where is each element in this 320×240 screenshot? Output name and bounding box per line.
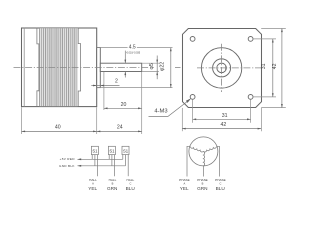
centerline side view — [14, 66, 150, 68]
svg-text:42: 42 — [272, 63, 278, 69]
phase wire middle — [202, 166, 204, 177]
front cap step contour right — [78, 28, 80, 107]
svg-text:40: 40 — [55, 124, 61, 130]
svg-text:-0.010/-0.035: -0.010/-0.035 — [126, 51, 141, 54]
svg-text:S1: S1 — [92, 149, 98, 154]
winding coil up-right — [203, 146, 216, 152]
dim 42 bottom line — [182, 128, 261, 130]
dim 42 right extension lines — [261, 28, 286, 30]
front cap step contour left — [37, 28, 39, 107]
svg-text:HALL: HALL — [109, 178, 117, 182]
motor winding circle — [189, 137, 218, 166]
svg-text:4.5: 4.5 — [129, 44, 136, 50]
svg-text:GND BLK: GND BLK — [59, 164, 75, 168]
winding coil down — [203, 151, 204, 165]
sensor1 pins — [78, 155, 129, 177]
dim 31 bottom line — [193, 118, 251, 120]
centerline dash right of phi22 — [175, 66, 181, 68]
+5V bus wire — [78, 158, 123, 160]
hall sensor box S1 #2 — [108, 146, 115, 154]
front view vertical centerline — [221, 44, 223, 92]
mounting hole bottom-left — [190, 95, 195, 100]
svg-text:HALL: HALL — [89, 178, 97, 182]
svg-text:BLU: BLU — [216, 186, 226, 191]
shaft flat chord — [224, 65, 226, 71]
dim 4.5 extension/boss-top line — [97, 47, 128, 49]
pilot boss side view — [97, 48, 101, 88]
shaft side view — [100, 63, 141, 71]
dim 42 right line — [281, 29, 283, 108]
dim 31 bottom extension lines — [192, 100, 194, 123]
svg-text:PHASE: PHASE — [179, 178, 190, 182]
dim phi22 line and arrows — [170, 48, 172, 88]
svg-text:31: 31 — [261, 63, 267, 69]
GND arrow — [77, 165, 81, 167]
GND bus wire — [78, 165, 126, 167]
winding coil up-left — [190, 146, 203, 152]
svg-text:B: B — [112, 182, 114, 186]
leader 4-M3 — [149, 100, 190, 116]
svg-text:S1: S1 — [123, 149, 129, 154]
svg-text:S1: S1 — [109, 149, 115, 154]
svg-text:42: 42 — [221, 122, 227, 128]
sensor2 pins — [108, 155, 110, 160]
hall sensor box S1 #1 — [91, 146, 98, 154]
hall sensor box S1 #3 — [122, 146, 129, 154]
dim 31 right extension lines — [253, 38, 276, 40]
svg-text:24: 24 — [117, 124, 123, 130]
svg-text:PHASE: PHASE — [197, 178, 208, 182]
svg-text:+5V RED: +5V RED — [60, 157, 76, 161]
dim phi5 line and arrows — [156, 56, 158, 80]
mounting hole bottom-right — [248, 95, 253, 100]
svg-text:PHASE: PHASE — [215, 178, 226, 182]
sensor3 pins — [122, 155, 124, 160]
dim 4.5 lower arrow — [124, 72, 126, 78]
dim phi5 extension lines — [142, 62, 159, 64]
svg-text:B: B — [202, 182, 204, 186]
shaft circle — [217, 63, 227, 73]
lamination stack ribs — [39, 28, 78, 106]
dim 42 bottom extension lines — [181, 108, 183, 131]
svg-text:YEL: YEL — [88, 186, 97, 191]
svg-text:2: 2 — [115, 78, 118, 84]
mounting hole top-left — [190, 37, 195, 42]
dim 40 extension lines — [22, 72, 142, 134]
dim 24 line — [97, 130, 142, 132]
svg-text:φ5: φ5 — [149, 63, 155, 69]
phase wire left — [187, 146, 190, 176]
dim 2 line — [91, 85, 119, 87]
rear cover inner line — [23, 28, 25, 107]
svg-text:4-M3: 4-M3 — [154, 108, 167, 114]
mounting hole top-right — [248, 37, 253, 42]
dim 4.5 upper arrow — [124, 51, 126, 64]
phase wire right — [217, 146, 219, 176]
svg-text:A: A — [92, 182, 94, 186]
svg-text:BLU: BLU — [126, 186, 136, 191]
svg-text:C: C — [219, 182, 221, 186]
svg-text:C: C — [129, 182, 131, 186]
motor body side view outline — [22, 28, 97, 107]
svg-text:GRN: GRN — [197, 186, 207, 191]
svg-text:A: A — [184, 182, 186, 186]
svg-text:20: 20 — [121, 102, 127, 108]
svg-text:HALL: HALL — [127, 178, 135, 182]
dim 40 line — [22, 130, 97, 132]
front view flange square — [183, 29, 262, 108]
front view horizontal centerline — [197, 67, 264, 69]
dim 31 right line — [272, 39, 274, 97]
svg-text:31: 31 — [222, 113, 228, 119]
boss circle — [201, 48, 241, 88]
svg-text:YEL: YEL — [180, 186, 189, 191]
dim 20 line — [104, 107, 142, 109]
dim phi22 extension line bottom — [97, 87, 173, 89]
svg-text:GRN: GRN — [107, 186, 117, 191]
svg-text:φ22: φ22 — [159, 62, 165, 71]
+5V arrow — [77, 158, 81, 160]
dim 20 extension line — [103, 72, 105, 110]
bearing circle — [213, 59, 231, 77]
